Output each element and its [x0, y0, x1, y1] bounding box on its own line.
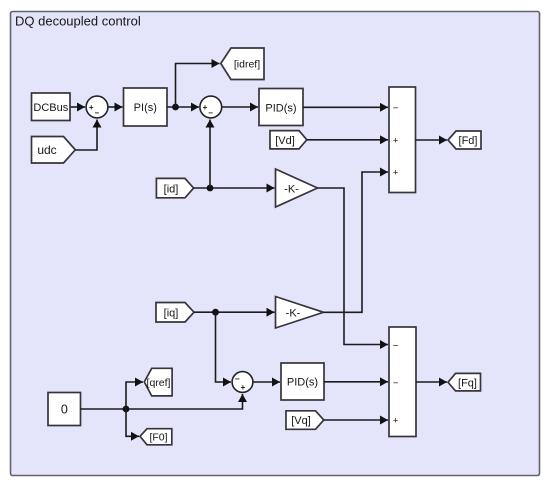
from tag [id]: [156, 178, 193, 197]
constant block 0: [48, 393, 81, 426]
svg-text:+: +: [203, 103, 208, 112]
wire junction -> Goto idref: [176, 64, 220, 108]
svg-text:PI(s): PI(s): [134, 102, 157, 114]
sum circle S3: [232, 372, 253, 393]
sum block 1 (top): [389, 87, 416, 193]
wire PI(s) -> Sum2: [167, 106, 199, 108]
svg-text:−: −: [94, 109, 99, 118]
svg-text:-K-: -K-: [284, 183, 299, 195]
wire DCBus -> Sum1: [71, 106, 86, 108]
svg-text:[F0]: [F0]: [149, 431, 167, 443]
wire Sum block 2 -> [Fq]: [416, 381, 447, 383]
junction dot at PI(s) output: [172, 104, 179, 111]
svg-text:PID(s): PID(s): [265, 102, 296, 114]
wire Sum block 1 -> [Fd]: [416, 139, 448, 141]
svg-text:[Fq]: [Fq]: [458, 377, 477, 389]
block PID(s) bottom: [281, 363, 324, 400]
wire [Vd] -> Sum block 1 port2: [307, 139, 388, 141]
wire junction -> [F0]: [126, 409, 139, 436]
svg-text:DCBus: DCBus: [33, 102, 68, 114]
block DCBus: [32, 93, 71, 121]
svg-text:+: +: [393, 135, 399, 146]
wire Sum1 -> PI(s): [108, 106, 123, 108]
svg-text:−: −: [393, 378, 399, 389]
sum block 2 (bottom): [389, 327, 416, 437]
wire junction -> Sum2 bottom: [209, 120, 211, 189]
svg-text:−: −: [393, 340, 399, 351]
svg-text:+: +: [393, 168, 399, 179]
svg-text:+: +: [393, 415, 399, 426]
svg-text:−: −: [235, 375, 240, 384]
junction dot on 0 wire: [123, 406, 130, 413]
wire junction -> [qref]: [126, 382, 143, 409]
gain K1 triangle: [276, 169, 318, 207]
svg-text:DQ decoupled control: DQ decoupled control: [15, 14, 141, 29]
svg-text:udc: udc: [37, 143, 56, 157]
wire udc -> Sum1 bottom: [75, 120, 97, 151]
sum circle S2: [200, 96, 222, 118]
wire PID(s) bottom -> Sum block 2 port2: [324, 381, 388, 383]
goto tag [qref]: [144, 368, 172, 396]
goto tag [Fq]: [448, 373, 481, 391]
from tag [Vd]: [270, 131, 307, 149]
from tag [iq]: [156, 303, 194, 323]
wire [Vq] -> Sum block 2 port3: [324, 419, 388, 421]
svg-text:-K-: -K-: [286, 308, 301, 320]
wire K2 -> Sum block 1 port3: [324, 172, 389, 312]
svg-text:+: +: [241, 383, 246, 392]
wire Sum2 -> PID(s) top: [222, 106, 258, 108]
from tag [Vq]: [286, 411, 324, 430]
svg-text:[iq]: [iq]: [164, 308, 179, 320]
wire [iq] -> Gain K2: [194, 311, 275, 313]
block PID(s) top: [259, 89, 303, 126]
svg-text:[id]: [id]: [164, 183, 179, 195]
wire Sum3 -> PID(s) bottom: [253, 381, 280, 383]
goto tag [Fd]: [448, 131, 481, 149]
svg-text:[qref]: [qref]: [147, 377, 171, 389]
svg-text:+: +: [89, 103, 94, 112]
wire PID(s) top -> Sum block 1 port1: [303, 106, 388, 108]
wire junction -> Sum3 left: [216, 312, 232, 382]
junction dot on [id] wire: [207, 185, 214, 192]
svg-text:[Vd]: [Vd]: [275, 135, 295, 147]
svg-text:[Fd]: [Fd]: [459, 135, 478, 147]
block PI(s): [124, 88, 168, 126]
svg-text:−: −: [208, 109, 213, 118]
svg-text:0: 0: [61, 403, 68, 417]
from tag udc: [32, 137, 76, 164]
wire 0 -> Sum3 bottom: [81, 394, 243, 409]
svg-text:−: −: [393, 103, 399, 114]
goto tag [F0]: [140, 429, 172, 445]
wire K1 -> Sum block 2 port1: [318, 188, 389, 345]
gain K2 triangle: [276, 297, 324, 329]
svg-text:[Vq]: [Vq]: [291, 415, 311, 427]
svg-text:PID(s): PID(s): [287, 377, 318, 389]
svg-text:[idref]: [idref]: [234, 59, 260, 71]
wire [id] -> Gain K1: [194, 187, 275, 189]
junction dot on [iq] wire: [212, 309, 219, 316]
sum circle S1: [86, 96, 108, 118]
goto tag [idref]: [221, 48, 264, 80]
